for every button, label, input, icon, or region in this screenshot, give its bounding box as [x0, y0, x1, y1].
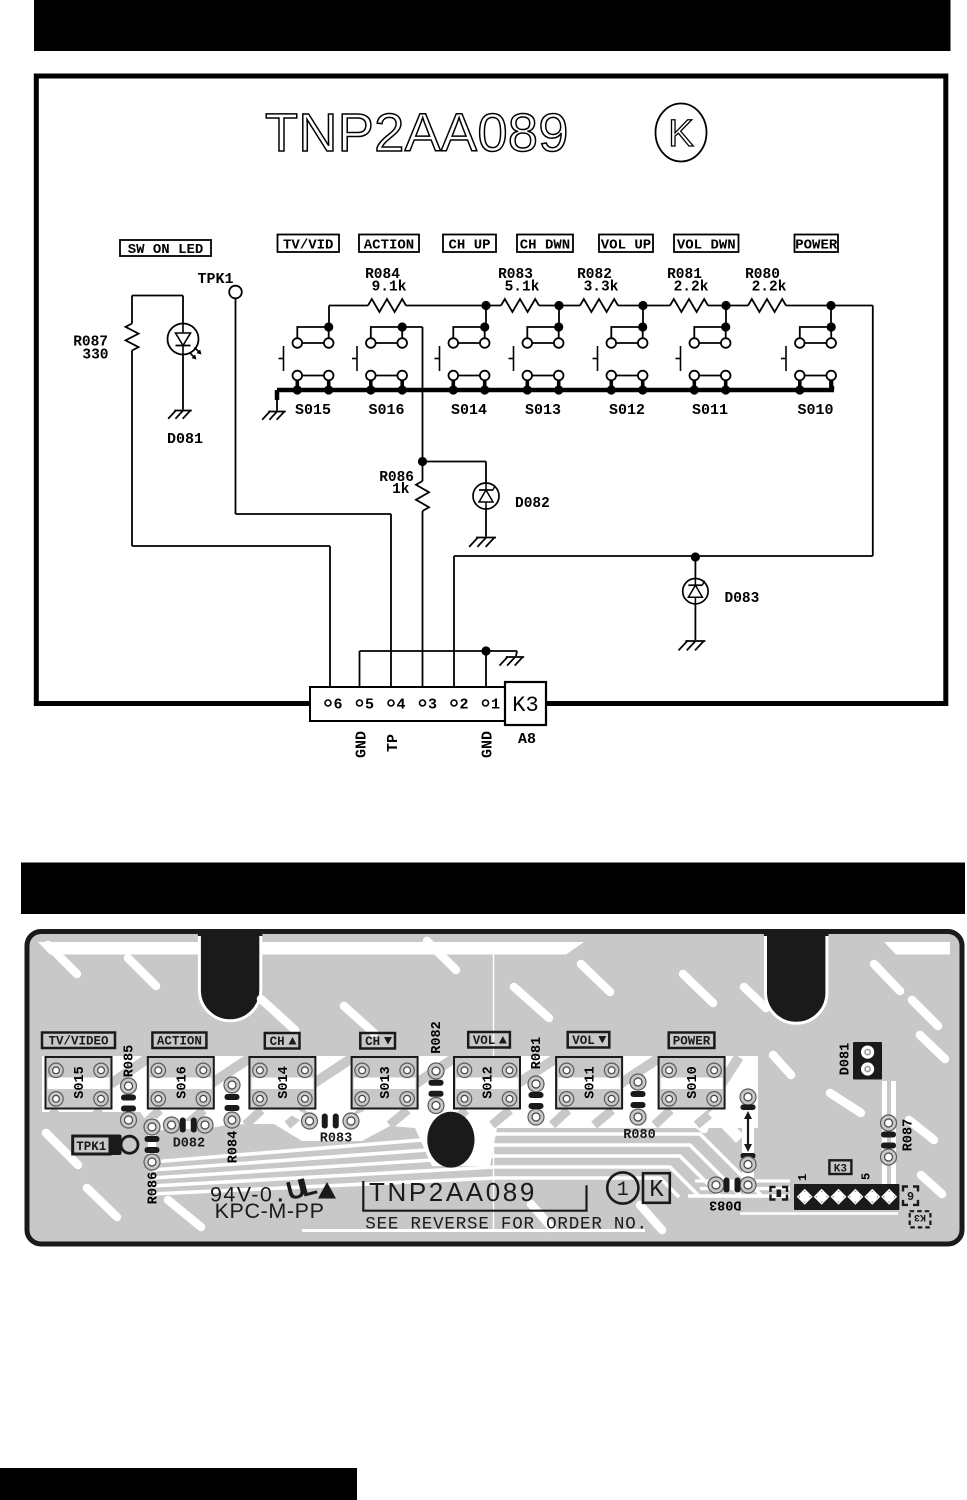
- svg-text:1: 1: [796, 1174, 810, 1181]
- svg-text:R080: R080: [623, 1128, 655, 1143]
- svg-text:S011: S011: [692, 402, 728, 419]
- svg-text:6: 6: [334, 697, 343, 714]
- svg-text:CH DWN: CH DWN: [520, 237, 570, 253]
- svg-text:KPC-M-PP: KPC-M-PP: [215, 1199, 325, 1223]
- svg-text:S010: S010: [686, 1066, 701, 1098]
- svg-text:POWER: POWER: [673, 1035, 711, 1049]
- svg-text:6: 6: [907, 1188, 914, 1202]
- svg-text:TNP2AA089: TNP2AA089: [369, 1177, 537, 1207]
- svg-text:K3: K3: [512, 693, 538, 718]
- svg-text:5.1k: 5.1k: [505, 280, 540, 296]
- svg-text:TP: TP: [385, 734, 402, 752]
- svg-text:S015: S015: [73, 1066, 88, 1098]
- svg-text:S013: S013: [525, 402, 561, 419]
- svg-text:D082: D082: [173, 1137, 205, 1152]
- svg-text:S014: S014: [277, 1066, 292, 1098]
- svg-text:K: K: [649, 1177, 664, 1204]
- svg-text:TV/VID: TV/VID: [283, 237, 333, 253]
- svg-text:R081: R081: [530, 1037, 545, 1069]
- svg-text:S012: S012: [609, 402, 645, 419]
- svg-text:1: 1: [617, 1179, 629, 1202]
- svg-text:ACTION: ACTION: [157, 1035, 202, 1049]
- svg-text:SEE REVERSE FOR ORDER NO.: SEE REVERSE FOR ORDER NO.: [365, 1215, 648, 1235]
- svg-text:TPK1: TPK1: [198, 271, 234, 288]
- svg-text:TNP2AA089: TNP2AA089: [265, 103, 569, 163]
- svg-text:S011: S011: [584, 1066, 599, 1098]
- svg-text:9.1k: 9.1k: [372, 280, 407, 296]
- svg-text:GND: GND: [354, 731, 371, 758]
- svg-text:R085: R085: [123, 1045, 138, 1077]
- svg-text:330: 330: [82, 348, 108, 364]
- svg-text:POWER: POWER: [795, 237, 838, 253]
- svg-text:5: 5: [365, 697, 374, 714]
- svg-text:R082: R082: [430, 1021, 445, 1053]
- svg-text:K3: K3: [834, 1163, 848, 1175]
- svg-text:ACTION: ACTION: [364, 237, 414, 253]
- svg-text:VOL UP: VOL UP: [601, 237, 651, 253]
- svg-text:VOL: VOL: [473, 1034, 496, 1048]
- svg-text:3: 3: [428, 697, 437, 714]
- svg-text:1k: 1k: [392, 482, 410, 498]
- svg-text:VOL: VOL: [572, 1034, 595, 1048]
- svg-text:D083: D083: [725, 591, 760, 607]
- svg-text:A8: A8: [518, 731, 536, 748]
- svg-text:D081: D081: [839, 1043, 854, 1075]
- svg-text:GND: GND: [480, 731, 497, 758]
- svg-text:S015: S015: [295, 402, 331, 419]
- svg-text:CH UP: CH UP: [448, 237, 490, 253]
- svg-text:D083: D083: [709, 1197, 741, 1212]
- svg-text:D082: D082: [515, 496, 550, 512]
- svg-text:4: 4: [397, 697, 406, 714]
- svg-text:TPK1: TPK1: [76, 1140, 106, 1154]
- svg-text:2: 2: [460, 697, 469, 714]
- svg-text:S016: S016: [368, 402, 404, 419]
- svg-text:1: 1: [491, 697, 500, 714]
- svg-text:TV/VIDEO: TV/VIDEO: [48, 1035, 109, 1049]
- svg-text:CH: CH: [270, 1035, 285, 1049]
- svg-text:S010: S010: [797, 402, 833, 419]
- svg-text:R087: R087: [902, 1119, 917, 1151]
- svg-text:S012: S012: [482, 1066, 497, 1098]
- svg-text:K: K: [668, 113, 693, 155]
- svg-text:R083: R083: [320, 1132, 352, 1147]
- svg-text:VOL DWN: VOL DWN: [677, 237, 736, 253]
- svg-text:S014: S014: [451, 402, 487, 419]
- svg-text:CH: CH: [365, 1035, 380, 1049]
- svg-text:3.3k: 3.3k: [584, 280, 619, 296]
- svg-text:R084: R084: [227, 1131, 242, 1163]
- svg-text:S013: S013: [379, 1066, 394, 1098]
- svg-text:R086: R086: [147, 1172, 162, 1204]
- svg-text:2.2k: 2.2k: [752, 280, 787, 296]
- svg-text:5: 5: [860, 1173, 874, 1180]
- svg-text:K3: K3: [914, 1211, 926, 1222]
- svg-text:SW ON LED: SW ON LED: [128, 242, 204, 258]
- svg-text:D081: D081: [167, 431, 203, 448]
- svg-text:2.2k: 2.2k: [674, 280, 709, 296]
- svg-text:S016: S016: [175, 1066, 190, 1098]
